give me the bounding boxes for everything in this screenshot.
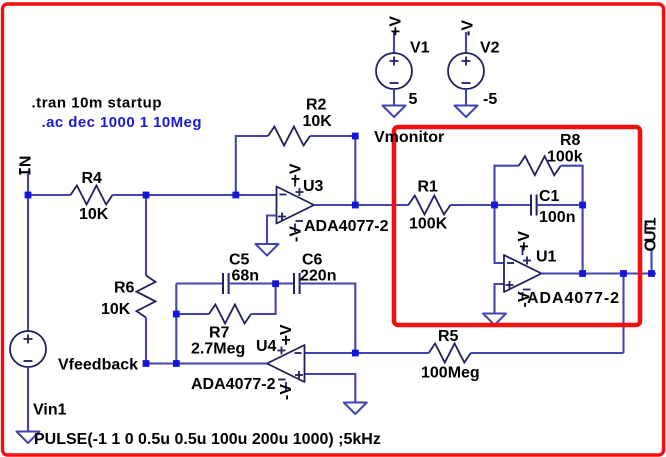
- svg-text:10K: 10K: [303, 113, 333, 130]
- svg-text:ADA4077-2: ADA4077-2: [304, 218, 389, 235]
- svg-text:V1: V1: [410, 40, 430, 57]
- svg-text:Vfeedback: Vfeedback: [58, 357, 138, 374]
- svg-text:10K: 10K: [101, 301, 131, 318]
- svg-text:R7: R7: [209, 325, 230, 342]
- svg-text:-V: -V: [278, 384, 295, 400]
- svg-text:R1: R1: [418, 179, 439, 196]
- svg-text:100Meg: 100Meg: [421, 365, 480, 382]
- svg-text:R6: R6: [114, 280, 135, 297]
- svg-text:-V: -V: [288, 226, 305, 242]
- svg-text:C1: C1: [539, 188, 560, 205]
- svg-text:-5: -5: [483, 91, 497, 108]
- svg-text:68n: 68n: [232, 268, 260, 285]
- svg-text:ADA4077-2: ADA4077-2: [527, 290, 619, 307]
- svg-text:C5: C5: [229, 252, 250, 269]
- svg-text:2.7Meg: 2.7Meg: [191, 341, 245, 358]
- svg-text:U4: U4: [256, 338, 277, 355]
- svg-text:10K: 10K: [79, 206, 109, 223]
- svg-text:OUT1: OUT1: [643, 217, 660, 251]
- svg-text:220n: 220n: [300, 268, 336, 285]
- svg-text:+V: +V: [278, 324, 295, 344]
- svg-text:C6: C6: [302, 252, 323, 269]
- svg-text:-V: -V: [516, 291, 533, 307]
- svg-text:100n: 100n: [539, 209, 575, 226]
- svg-text:5: 5: [409, 91, 418, 108]
- svg-text:100K: 100K: [409, 216, 448, 233]
- svg-text:100k: 100k: [547, 149, 583, 166]
- svg-text:+V: +V: [388, 16, 405, 36]
- svg-text:R8: R8: [560, 132, 581, 149]
- svg-text:R2: R2: [306, 97, 327, 114]
- svg-text:V2: V2: [480, 40, 500, 57]
- svg-text:Vin1: Vin1: [33, 402, 67, 419]
- svg-text:+V: +V: [288, 163, 305, 183]
- svg-text:+V: +V: [516, 231, 533, 251]
- svg-text:.ac dec 1000 1 10Meg: .ac dec 1000 1 10Meg: [42, 114, 202, 131]
- svg-text:PULSE(-1 1 0 0.5u 0.5u 100u 20: PULSE(-1 1 0 0.5u 0.5u 100u 200u 1000) ;…: [34, 431, 381, 448]
- svg-text:-V: -V: [460, 20, 477, 36]
- svg-text:R5: R5: [438, 328, 459, 345]
- svg-text:R4: R4: [82, 170, 103, 187]
- svg-text:U3: U3: [303, 178, 324, 195]
- svg-text:ADA4077-2: ADA4077-2: [191, 376, 276, 393]
- svg-text:Vmonitor: Vmonitor: [374, 129, 444, 146]
- svg-text:U1: U1: [536, 249, 557, 266]
- svg-text:.tran 10m startup: .tran 10m startup: [32, 95, 162, 112]
